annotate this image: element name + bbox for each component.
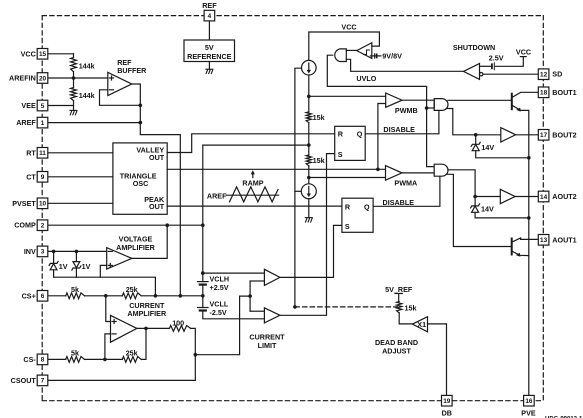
svg-text:Q: Q <box>364 203 370 212</box>
svg-text:10: 10 <box>39 201 47 208</box>
svg-text:RT: RT <box>26 148 36 157</box>
svg-text:AREFIN: AREFIN <box>9 74 36 83</box>
svg-text:5V_REF: 5V_REF <box>385 285 413 294</box>
svg-text:144k: 144k <box>79 61 95 70</box>
svg-text:5k: 5k <box>71 349 79 358</box>
svg-text:REF: REF <box>202 1 217 10</box>
svg-text:ADJUST: ADJUST <box>382 347 411 356</box>
svg-text:CT: CT <box>26 172 36 181</box>
svg-text:VCC: VCC <box>341 22 356 31</box>
svg-text:S: S <box>338 150 343 159</box>
svg-text:PVSET: PVSET <box>12 199 36 208</box>
svg-text:AREF: AREF <box>16 118 36 127</box>
svg-text:14V: 14V <box>481 205 494 214</box>
svg-text:3: 3 <box>41 249 45 256</box>
svg-text:15: 15 <box>39 51 47 58</box>
svg-text:14V: 14V <box>481 143 494 152</box>
svg-text:R: R <box>345 203 351 212</box>
svg-text:5k: 5k <box>71 285 79 294</box>
svg-text:AREF: AREF <box>207 191 227 200</box>
svg-text:4: 4 <box>208 13 212 20</box>
svg-text:DISABLE: DISABLE <box>383 198 415 207</box>
svg-text:6: 6 <box>41 293 45 300</box>
svg-text:9V/8V: 9V/8V <box>382 52 402 61</box>
svg-text:SHUTDOWN: SHUTDOWN <box>453 43 495 52</box>
svg-text:15k: 15k <box>313 113 325 122</box>
svg-text:AMPLIFIER: AMPLIFIER <box>127 309 167 318</box>
svg-text:Q: Q <box>357 130 363 139</box>
svg-text:17: 17 <box>540 132 548 139</box>
svg-text:25k: 25k <box>126 285 138 294</box>
svg-text:+2.5V: +2.5V <box>210 283 229 292</box>
svg-text:12: 12 <box>540 72 548 79</box>
svg-text:PVE: PVE <box>521 409 536 418</box>
svg-text:1V: 1V <box>59 262 68 271</box>
svg-text:S: S <box>345 222 350 231</box>
svg-text:R: R <box>338 130 344 139</box>
svg-text:14: 14 <box>540 194 548 201</box>
svg-text:100: 100 <box>172 319 184 328</box>
svg-text:2.5V: 2.5V <box>489 54 504 63</box>
svg-text:1: 1 <box>41 120 45 127</box>
svg-text:VCC: VCC <box>21 49 36 58</box>
svg-text:AOUT1: AOUT1 <box>552 235 576 244</box>
svg-text:REFERENCE: REFERENCE <box>187 52 232 61</box>
svg-text:CS+: CS+ <box>22 291 36 300</box>
svg-text:5V: 5V <box>205 43 214 52</box>
svg-text:BUFFER: BUFFER <box>117 66 147 75</box>
svg-text:1V: 1V <box>82 262 91 271</box>
svg-text:LIMIT: LIMIT <box>258 341 277 350</box>
svg-text:X1: X1 <box>417 320 426 329</box>
svg-text:144k: 144k <box>79 91 95 100</box>
svg-text:5: 5 <box>41 103 45 110</box>
svg-text:COMP: COMP <box>14 221 36 230</box>
svg-text:8: 8 <box>41 357 45 364</box>
svg-text:VCC: VCC <box>516 48 531 57</box>
svg-text:BOUT1: BOUT1 <box>552 88 576 97</box>
svg-text:7: 7 <box>41 378 45 385</box>
svg-text:VEE: VEE <box>21 101 36 110</box>
svg-text:BOUT2: BOUT2 <box>552 130 576 139</box>
svg-text:25k: 25k <box>126 349 138 358</box>
svg-text:CSOUT: CSOUT <box>11 376 37 385</box>
svg-text:INV: INV <box>24 247 36 256</box>
svg-text:RAMP: RAMP <box>242 179 263 188</box>
svg-text:11: 11 <box>39 150 46 157</box>
svg-text:16: 16 <box>525 398 533 405</box>
svg-text:UVLO: UVLO <box>356 74 376 83</box>
svg-text:15k: 15k <box>313 156 325 165</box>
svg-text:DB: DB <box>442 409 452 418</box>
svg-text:15k: 15k <box>405 303 417 312</box>
svg-text:-2.5V: -2.5V <box>210 308 227 317</box>
svg-text:9: 9 <box>41 174 45 181</box>
svg-text:AOUT2: AOUT2 <box>552 192 576 201</box>
svg-text:OSC: OSC <box>133 179 149 188</box>
svg-text:PWMB: PWMB <box>395 106 418 115</box>
svg-text:DISABLE: DISABLE <box>383 125 415 134</box>
svg-text:CS-: CS- <box>23 355 36 364</box>
svg-text:OUT: OUT <box>149 202 165 211</box>
svg-text:2: 2 <box>41 223 45 230</box>
svg-text:SD: SD <box>552 70 562 79</box>
svg-text:18: 18 <box>540 90 548 97</box>
svg-text:AMPLIFIER: AMPLIFIER <box>116 243 156 252</box>
svg-text:13: 13 <box>540 237 548 244</box>
svg-text:19: 19 <box>443 398 451 405</box>
svg-text:OUT: OUT <box>149 153 165 162</box>
svg-text:20: 20 <box>39 75 47 82</box>
svg-text:PWMA: PWMA <box>394 179 417 188</box>
